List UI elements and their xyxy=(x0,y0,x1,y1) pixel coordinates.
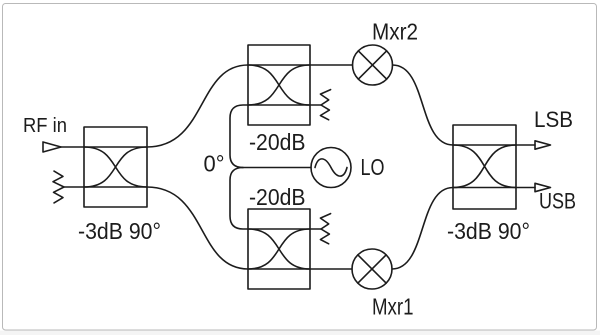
svg-text:0°: 0° xyxy=(204,150,225,176)
svg-text:USB: USB xyxy=(539,189,576,214)
wire xyxy=(230,168,248,230)
wire xyxy=(310,104,321,106)
output port USB xyxy=(535,183,551,191)
wire xyxy=(64,186,84,188)
mixer Mxr1 xyxy=(352,249,392,289)
svg-text:RF in: RF in xyxy=(23,115,67,137)
coupler X4 -3dB 90 xyxy=(453,125,516,209)
wire xyxy=(516,144,535,146)
input port RF in xyxy=(43,142,61,152)
wire xyxy=(147,65,248,147)
wire xyxy=(147,187,248,269)
resistor R2 xyxy=(320,90,330,120)
coupler X1 -3dB 90 xyxy=(84,127,147,207)
coupler X3 -20dB xyxy=(248,209,310,289)
output port LSB xyxy=(535,141,551,149)
wire xyxy=(61,146,84,148)
svg-text:Mxr1: Mxr1 xyxy=(372,294,414,320)
resistor R3 xyxy=(320,214,330,244)
svg-text:-20dB: -20dB xyxy=(249,129,306,155)
coupler X2 -20dB xyxy=(248,45,310,125)
wire xyxy=(516,187,535,189)
wire xyxy=(310,64,353,66)
svg-text:-3dB 90°: -3dB 90° xyxy=(78,218,161,244)
svg-text:Mxr2: Mxr2 xyxy=(372,19,418,45)
wire xyxy=(230,105,248,168)
mixer Mxr2 xyxy=(353,45,393,85)
wire xyxy=(243,167,311,169)
resistor R1 xyxy=(53,171,64,203)
svg-text:LSB: LSB xyxy=(534,107,573,132)
oscillator LO xyxy=(311,148,351,188)
wire xyxy=(392,188,453,270)
wire xyxy=(310,228,321,230)
svg-text:-3dB 90°: -3dB 90° xyxy=(447,218,530,244)
svg-text:-20dB: -20dB xyxy=(249,184,306,210)
svg-text:LO: LO xyxy=(361,154,385,180)
wire xyxy=(310,268,352,270)
wire xyxy=(393,65,454,145)
